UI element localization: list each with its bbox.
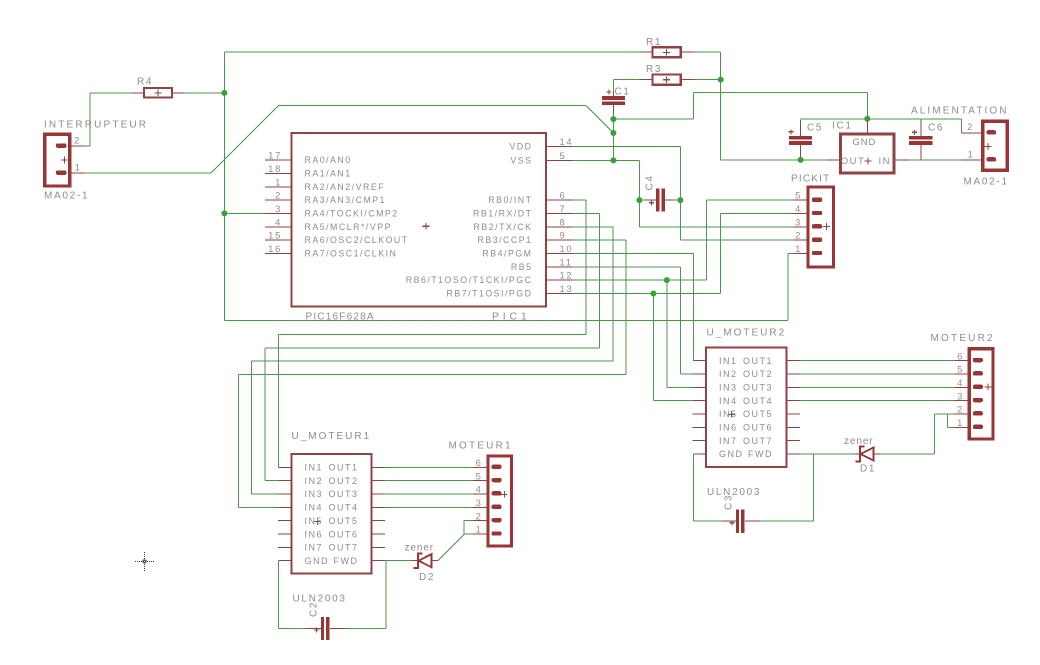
junction node A C1 bottom — [610, 116, 616, 122]
svg-text:2: 2 — [275, 190, 282, 201]
wire horizontal y105 — [279, 105, 587, 107]
svg-text:RA5/MCLR*/VPP: RA5/MCLR*/VPP — [305, 222, 392, 232]
wire GND to PICKIT pin3 — [639, 226, 793, 228]
svg-text:D1: D1 — [860, 464, 876, 475]
wire OUT3 to MOTEUR2 pin4 — [800, 386, 955, 388]
wire diagonal up — [211, 106, 278, 173]
wire RB7 to IN4 U_MOTEUR2 and PICKIT4 — [573, 293, 721, 295]
wire VDD to PICKIT pin2 — [680, 239, 793, 241]
svg-text:RB4/PGM: RB4/PGM — [482, 249, 532, 259]
svg-text:13: 13 — [560, 283, 574, 294]
junction R4-MCLR — [221, 90, 227, 96]
wire VDD row — [573, 145, 681, 147]
wire diagonal down to node B — [586, 106, 613, 133]
IC U_MOTEUR1 ULN2003 body — [292, 454, 372, 574]
wire VDD vertical x680 — [679, 146, 681, 240]
U_MOTEUR2 origin cross — [728, 411, 735, 418]
svg-text:OUT5: OUT5 — [743, 409, 773, 419]
svg-text:5: 5 — [476, 470, 482, 481]
svg-text:RA7/OSC1/CLKIN: RA7/OSC1/CLKIN — [305, 249, 398, 259]
svg-text:RB3/CCP1: RB3/CCP1 — [477, 235, 532, 245]
svg-text:U_MOTEUR2: U_MOTEUR2 — [707, 328, 787, 339]
svg-text:OUT2: OUT2 — [743, 369, 773, 379]
svg-text:OUT3: OUT3 — [743, 383, 773, 393]
svg-text:RA3/AN3/CMP1: RA3/AN3/CMP1 — [305, 195, 387, 205]
svg-text:2: 2 — [967, 121, 973, 132]
svg-text:RA1/AN1: RA1/AN1 — [305, 169, 352, 179]
IC1 IN pin stub — [894, 159, 909, 161]
svg-text:C6: C6 — [928, 123, 944, 134]
svg-text:zener: zener — [844, 436, 874, 447]
wire top horizontal to R1 left — [224, 51, 639, 53]
svg-text:2: 2 — [476, 510, 482, 521]
wire C4 right join — [676, 199, 681, 201]
junction MCLR-RA4 — [221, 210, 227, 216]
wire FWD to D2 — [385, 560, 412, 562]
svg-text:FWD: FWD — [748, 449, 773, 459]
ALIMENTATION pad pin2 — [987, 130, 997, 134]
junction C4 left — [636, 197, 642, 203]
svg-text:16: 16 — [268, 243, 282, 254]
svg-text:RB6/T1OSO/T1CKI/PGC: RB6/T1OSO/T1CKI/PGC — [406, 275, 533, 285]
PIC1 left pin stubs RA0-RA7 — [265, 159, 292, 161]
junction C4 right — [677, 197, 683, 203]
wire R4 right to junction — [185, 92, 224, 94]
junction RB6 branch — [664, 277, 670, 283]
wire branch to MOTEUR1 pin2 — [463, 521, 465, 534]
svg-text:4: 4 — [957, 377, 963, 388]
svg-text:11: 11 — [560, 256, 573, 267]
wire vertical MCLR bus x224 — [223, 52, 225, 320]
svg-text:IN2: IN2 — [719, 369, 738, 379]
MOTEUR1 pads — [492, 465, 502, 469]
svg-text:6: 6 — [476, 457, 482, 468]
capacitor C4 — [656, 189, 659, 212]
wire long horizontal MCLR to PICKIT1 — [224, 320, 788, 322]
wire RB4 to IN1 U_MOTEUR2 — [573, 252, 694, 254]
svg-text:3: 3 — [957, 390, 963, 401]
svg-text:C4: C4 — [645, 174, 656, 190]
MOTEUR2 pin stubs — [955, 360, 968, 362]
IC1 GND pin stub — [866, 121, 868, 135]
op-amp/IC PIC1 PIC16F628A body — [292, 133, 546, 306]
wire IC1 IN to ALIM pin1 — [909, 159, 968, 161]
PICKIT origin cross — [823, 223, 830, 230]
U_MOTEUR1 connected stubs — [278, 466, 291, 468]
svg-text:GND: GND — [305, 556, 330, 566]
svg-text:1: 1 — [968, 148, 974, 159]
svg-text:1: 1 — [275, 176, 282, 187]
svg-text:IN1: IN1 — [719, 356, 738, 366]
svg-text:OUT6: OUT6 — [328, 529, 358, 539]
svg-text:OUT5: OUT5 — [328, 516, 358, 526]
wire R1 right — [694, 51, 721, 53]
svg-text:1: 1 — [957, 417, 963, 428]
svg-text:IC1: IC1 — [832, 121, 853, 132]
U_MOTEUR2 connected stubs — [693, 360, 706, 362]
svg-text:U_MOTEUR1: U_MOTEUR1 — [292, 431, 372, 442]
svg-text:PIC16F628A: PIC16F628A — [306, 312, 375, 323]
svg-text:IN4: IN4 — [305, 503, 324, 513]
connector PICKIT body — [808, 187, 834, 267]
svg-text:R1: R1 — [646, 37, 662, 48]
svg-text:IN7: IN7 — [305, 543, 324, 553]
connector INTERRUPTEUR MA02-1 body — [45, 134, 70, 186]
wire R3 right — [694, 79, 721, 81]
wire to C2 left — [278, 627, 305, 629]
svg-text:18: 18 — [268, 163, 282, 174]
wire RB0 to IN1 U_MOTEUR1 — [573, 199, 587, 201]
ALIMENTATION pin2 stub — [962, 132, 982, 134]
ALIMENTATION pad pin1 — [987, 157, 997, 161]
wire RB2 to IN3 U_MOTEUR1 — [573, 226, 613, 228]
resistor R1 — [652, 47, 680, 57]
svg-text:OUT1: OUT1 — [743, 356, 773, 366]
svg-text:9: 9 — [560, 230, 567, 241]
IC1 origin cross — [865, 158, 872, 165]
voltage regulator IC1 body — [841, 134, 895, 173]
wire OUT1 to MOTEUR1 pin6 — [385, 466, 473, 468]
svg-text:IN3: IN3 — [719, 383, 738, 393]
wire GND1 down — [277, 561, 279, 629]
wire OUT2 to MOTEUR1 pin5 — [385, 480, 473, 482]
svg-text:MA02-1: MA02-1 — [964, 177, 1009, 188]
svg-text:OUT2: OUT2 — [328, 476, 358, 486]
wire ALIM pin2 drop — [961, 119, 963, 133]
svg-text:17: 17 — [268, 150, 282, 161]
wire RB3 to IN4 U_MOTEUR1 — [573, 239, 627, 241]
svg-text:IN5: IN5 — [305, 516, 324, 526]
svg-text:IN6: IN6 — [305, 529, 324, 539]
capacitor C1 — [602, 96, 625, 100]
capacitor C6 — [909, 136, 932, 140]
svg-text:2: 2 — [957, 404, 963, 415]
svg-text:2: 2 — [74, 134, 80, 145]
svg-text:R3: R3 — [646, 64, 662, 75]
connector MOTEUR1 body — [488, 456, 512, 546]
wire D1 to MOTEUR2 — [880, 453, 935, 455]
MOTEUR2 pads — [973, 358, 983, 362]
wire interrupteur pin1 — [85, 172, 211, 174]
svg-text:RA0/AN0: RA0/AN0 — [305, 155, 352, 165]
svg-text:C2: C2 — [309, 601, 320, 617]
svg-text:5: 5 — [957, 364, 963, 375]
svg-text:2: 2 — [795, 230, 801, 241]
svg-text:1: 1 — [476, 524, 482, 535]
wire D2 diagonal to MOTEUR1 — [438, 534, 464, 561]
wire GND vertical C1 bottom — [612, 114, 614, 160]
svg-text:7: 7 — [560, 203, 567, 214]
svg-text:RA6/OSC2/CLKOUT: RA6/OSC2/CLKOUT — [305, 235, 409, 245]
wire branch to MOTEUR2 pin1 — [947, 414, 949, 428]
wire OUT3 to MOTEUR1 pin4 — [385, 493, 473, 495]
svg-text:FWD: FWD — [334, 556, 359, 566]
ALIMENTATION origin cross — [985, 143, 992, 150]
svg-text:OUT: OUT — [841, 156, 866, 167]
wire GND2 down — [692, 454, 694, 521]
diode D2 zener — [413, 553, 422, 568]
junction R1-R3 right — [718, 77, 724, 83]
svg-text:IN6: IN6 — [719, 423, 738, 433]
svg-text:3: 3 — [275, 203, 282, 214]
IC1 OUT pin stub — [827, 159, 841, 161]
svg-text:INTERRUPTEUR: INTERRUPTEUR — [44, 120, 148, 131]
wire GND rail C5 to ALIM — [801, 118, 962, 120]
svg-text:15: 15 — [268, 230, 282, 241]
svg-text:IN4: IN4 — [719, 396, 738, 406]
PIC1 origin cross — [423, 223, 430, 230]
svg-text:4: 4 — [476, 484, 482, 495]
connector ALIMENTATION MA02-1 body — [983, 121, 1007, 170]
resistor R4 — [144, 88, 172, 98]
wire C4 left join — [639, 199, 645, 201]
INTERRUPTEUR pad pin1 — [56, 170, 66, 175]
svg-text:D2: D2 — [419, 572, 435, 583]
svg-text:IN3: IN3 — [305, 489, 324, 499]
INTERRUPTEUR pin2 stub — [72, 145, 85, 147]
junction IC1 GND rail — [864, 116, 870, 122]
wire OUT2 to MOTEUR2 pin5 — [800, 373, 955, 375]
svg-text:OUT4: OUT4 — [328, 503, 358, 513]
ALIMENTATION pin1 stub — [962, 159, 982, 161]
svg-text:C1: C1 — [615, 87, 631, 98]
wire corner up — [692, 93, 694, 120]
wire VSS row — [573, 159, 640, 161]
wire vertical R1R3 to OUT+ — [720, 52, 722, 160]
svg-text:RB0/INT: RB0/INT — [488, 195, 532, 205]
resistor R3 — [652, 75, 680, 85]
capacitor C5 — [789, 136, 812, 140]
svg-text:VSS: VSS — [510, 156, 532, 166]
wire GND top horizontal — [693, 92, 867, 94]
svg-text:OUT4: OUT4 — [743, 396, 773, 406]
svg-text:MOTEUR1: MOTEUR1 — [449, 441, 513, 452]
svg-text:GND: GND — [853, 137, 877, 148]
wire RB6 to IN3 U_MOTEUR2 and PICKIT5 — [573, 279, 707, 281]
svg-text:RB5: RB5 — [511, 262, 533, 272]
junction C5 bottom +5V — [798, 157, 804, 163]
svg-text:zener: zener — [405, 543, 435, 554]
junction RB7 branch — [650, 291, 656, 297]
svg-text:IN: IN — [879, 156, 892, 167]
svg-text:IN7: IN7 — [719, 436, 738, 446]
wire C2 right to FWD — [346, 627, 387, 629]
capacitor C2 — [321, 617, 324, 640]
MOTEUR2 origin cross — [985, 383, 992, 390]
wire RB5 to IN2 U_MOTEUR2 — [573, 266, 681, 268]
wire OUT4 to MOTEUR1 pin3 — [385, 506, 473, 508]
svg-text:4: 4 — [795, 203, 801, 214]
svg-text:OUT7: OUT7 — [743, 436, 773, 446]
IC U_MOTEUR2 ULN2003 body — [706, 347, 787, 467]
wire net N$1 interrupteur pin2 to R4 — [85, 145, 90, 147]
wire vertical up to PICKIT pin1 — [787, 253, 789, 320]
svg-text:3: 3 — [795, 216, 801, 227]
svg-text:1: 1 — [795, 243, 801, 254]
U_MOTEUR1 origin cross — [314, 518, 321, 525]
wire R3 left to C1 top — [613, 79, 639, 81]
wire node A to corner — [613, 118, 693, 120]
MOTEUR1 pin stubs — [473, 466, 487, 468]
svg-text:RB1/RX/DT: RB1/RX/DT — [473, 209, 532, 219]
svg-text:6: 6 — [560, 190, 567, 201]
wire OUT4 to MOTEUR2 pin3 — [800, 400, 955, 402]
svg-text:MA02-1: MA02-1 — [44, 191, 89, 202]
wire junction to PIC RA4 pin3 — [224, 212, 265, 214]
svg-text:IN5: IN5 — [719, 409, 738, 419]
svg-text:GND: GND — [719, 449, 744, 459]
svg-text:IN1: IN1 — [305, 463, 324, 473]
INTERRUPTEUR pad pin2 — [56, 143, 66, 148]
svg-text:RB7/T1OSI/PGD: RB7/T1OSI/PGD — [447, 289, 533, 299]
svg-text:VDD: VDD — [509, 142, 532, 152]
U_MOTEUR1 unconnected stubs IN5-IN7 OUT5-OUT7 — [278, 520, 291, 522]
svg-text:RB2/TX/CK: RB2/TX/CK — [474, 222, 533, 232]
svg-text:8: 8 — [560, 216, 567, 227]
PICKIT pin stubs — [794, 199, 807, 201]
capacitor C3 — [736, 510, 739, 533]
svg-text:3: 3 — [476, 497, 482, 508]
wire C3 right to FWD2 — [760, 520, 813, 522]
svg-text:ULN2003: ULN2003 — [293, 594, 347, 605]
diode D1 zener — [855, 447, 864, 462]
junction node C VSS — [610, 157, 616, 163]
svg-text:14: 14 — [560, 136, 574, 147]
PIC1 right pin stubs VDD VSS RB0-RB7 — [546, 145, 573, 147]
svg-text:R4: R4 — [137, 77, 153, 88]
INTERRUPTEUR pin1 stub — [72, 172, 85, 174]
svg-text:ALIMENTATION: ALIMENTATION — [911, 106, 1009, 117]
PICKIT pads — [812, 198, 823, 202]
svg-text:4: 4 — [275, 216, 282, 227]
wire to C3 left — [693, 520, 722, 522]
svg-text:IN2: IN2 — [305, 476, 324, 486]
svg-text:OUT6: OUT6 — [743, 423, 773, 433]
wire FWD2 to D1 — [800, 453, 854, 455]
junction node B — [610, 130, 616, 136]
connector MOTEUR2 body — [969, 349, 993, 439]
svg-text:RA2/AN2/VREF: RA2/AN2/VREF — [305, 182, 386, 192]
wire down to IC1 GND junction — [866, 93, 868, 119]
svg-text:PICKIT: PICKIT — [791, 174, 830, 185]
svg-text:RA4/TOCKI/CMP2: RA4/TOCKI/CMP2 — [305, 209, 399, 219]
svg-text:MOTEUR2: MOTEUR2 — [931, 333, 995, 344]
svg-text:OUT1: OUT1 — [328, 463, 358, 473]
wire RB1 to IN2 U_MOTEUR1 — [573, 212, 600, 214]
wire OUT1 to MOTEUR2 pin6 — [800, 360, 955, 362]
svg-text:5: 5 — [560, 150, 567, 161]
wire to MOTEUR1 pin1 — [464, 533, 473, 535]
MOTEUR1 origin cross — [501, 491, 508, 498]
origin crosshair mark — [135, 552, 154, 571]
svg-text:1: 1 — [75, 161, 81, 172]
INTERRUPTEUR origin cross — [61, 157, 68, 164]
svg-text:10: 10 — [560, 243, 574, 254]
svg-text:OUT3: OUT3 — [328, 489, 358, 499]
U_MOTEUR2 unconnected stubs IN5-IN7 OUT5-OUT7 — [693, 413, 706, 415]
svg-text:12: 12 — [560, 270, 574, 281]
svg-text:OUT7: OUT7 — [328, 543, 358, 553]
wire +5V to IC1 OUT — [721, 159, 827, 161]
svg-text:C5: C5 — [807, 123, 823, 134]
svg-text:6: 6 — [957, 350, 963, 361]
svg-text:5: 5 — [795, 190, 801, 201]
svg-text:PIC1: PIC1 — [492, 311, 531, 323]
svg-text:C3: C3 — [724, 494, 735, 510]
wire GND vertical x639 — [638, 160, 640, 226]
